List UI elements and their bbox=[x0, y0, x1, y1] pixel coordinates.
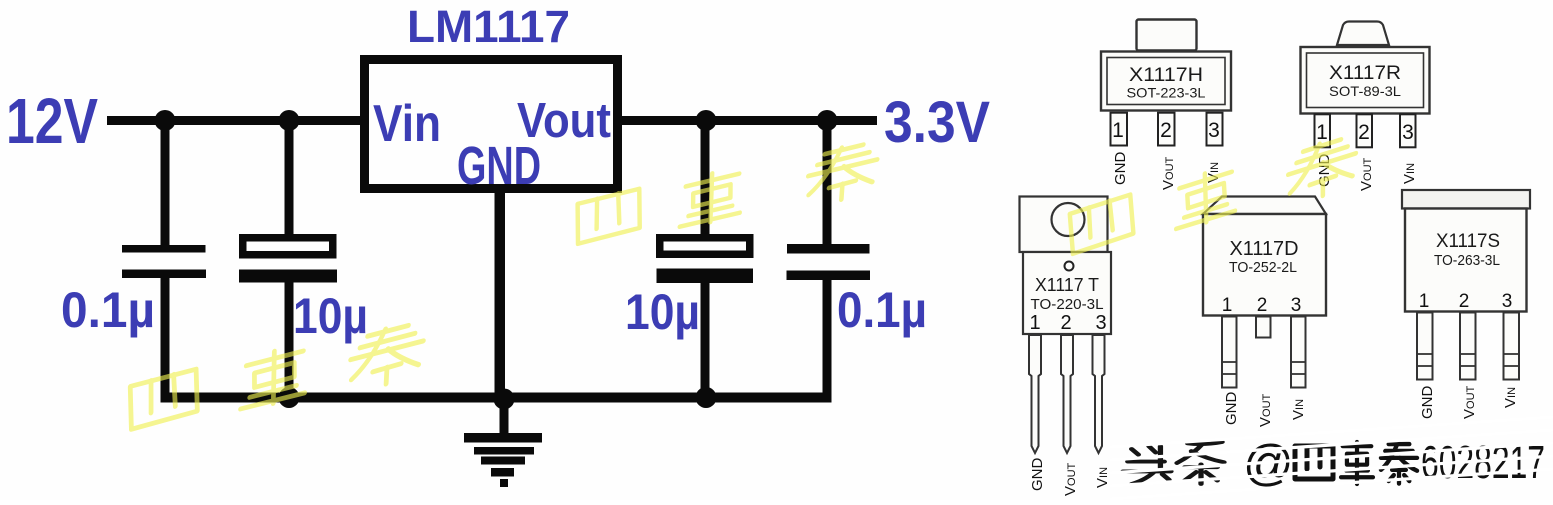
capacitor C2 10u bottom plate bbox=[239, 270, 337, 283]
leg 1 of U6 bbox=[1417, 313, 1433, 380]
package U2 X1117H SOT-223 body bbox=[1101, 52, 1231, 111]
mounting hole U4 bbox=[1052, 203, 1085, 236]
stencil stripes bbox=[1110, 417, 1553, 499]
svg-text:3: 3 bbox=[1095, 312, 1106, 334]
svg-text:SOT-89-3L: SOT-89-3L bbox=[1329, 83, 1401, 99]
svg-text:3.3V: 3.3V bbox=[884, 90, 990, 155]
wire ground stem bbox=[500, 400, 509, 435]
package U5 X1117D TO-252 body bbox=[1203, 214, 1326, 316]
svg-text:GND: GND bbox=[457, 136, 541, 196]
package U6 X1117S TO-263 body bbox=[1405, 209, 1527, 312]
wire C3 bottom lead bbox=[701, 280, 710, 402]
package U4 X1117T TO-220 tab bbox=[1020, 197, 1108, 253]
svg-text:TO-252-2L: TO-252-2L bbox=[1229, 259, 1297, 276]
leg 3 of U6 bbox=[1504, 313, 1520, 380]
svg-text:X1117D: X1117D bbox=[1230, 238, 1299, 260]
ground symbol bbox=[464, 433, 542, 487]
leg 3 of U5 bbox=[1291, 317, 1306, 388]
svg-text:2: 2 bbox=[1358, 121, 1370, 144]
svg-text:10µ: 10µ bbox=[625, 284, 700, 340]
svg-text:10µ: 10µ bbox=[293, 288, 368, 344]
svg-text:2: 2 bbox=[1459, 291, 1470, 312]
svg-text:X1117S: X1117S bbox=[1436, 231, 1500, 252]
svg-text:1: 1 bbox=[1029, 312, 1040, 334]
pin 1 of U2 bbox=[1111, 113, 1128, 146]
leg 2 of U6 bbox=[1460, 313, 1476, 380]
wire C4 bottom lead bbox=[823, 273, 832, 400]
pin 2 of U3 bbox=[1357, 114, 1373, 147]
svg-text:TO-220-3L: TO-220-3L bbox=[1031, 297, 1104, 313]
svg-text:1: 1 bbox=[1419, 291, 1430, 312]
svg-text:2: 2 bbox=[1060, 312, 1071, 334]
svg-text:12V: 12V bbox=[6, 85, 98, 157]
index dot U4 bbox=[1065, 262, 1074, 271]
node junction J5 bbox=[279, 387, 300, 408]
wire input rail bbox=[107, 116, 365, 125]
svg-text:3: 3 bbox=[1208, 119, 1220, 142]
svg-text:2: 2 bbox=[1160, 119, 1172, 142]
pin 1 of U3 bbox=[1315, 114, 1331, 147]
wire C1 bottom lead bbox=[161, 274, 170, 400]
svg-text:0.1µ: 0.1µ bbox=[61, 282, 155, 338]
svg-text:3: 3 bbox=[1402, 121, 1414, 144]
leg 2 of U4 bbox=[1061, 335, 1073, 453]
capacitor C2 10u polarized top plate bbox=[243, 238, 333, 255]
svg-text:SOT-223-3L: SOT-223-3L bbox=[1127, 85, 1206, 101]
leg 3 of U4 bbox=[1093, 335, 1105, 453]
svg-text:1: 1 bbox=[1316, 121, 1328, 144]
node junction J1 bbox=[155, 110, 176, 131]
node junction J7 bbox=[696, 387, 717, 408]
wire C3 top lead bbox=[701, 120, 710, 235]
glyph zhong (heavy) black bbox=[1341, 442, 1373, 484]
svg-text:LM1117: LM1117 bbox=[407, 1, 570, 52]
svg-text:X1117 T: X1117 T bbox=[1035, 275, 1099, 295]
capacitor C3 10u bottom plate bbox=[657, 269, 754, 284]
capacitor C3 10u polarized top plate bbox=[660, 238, 750, 255]
svg-text:X1117R: X1117R bbox=[1329, 63, 1401, 84]
package U5 X1117D TO-252 cap bbox=[1203, 197, 1326, 215]
watermark bottom credit line bbox=[1110, 417, 1553, 499]
node junction J6 bbox=[494, 389, 515, 410]
glyph tiao (article) bbox=[1177, 442, 1224, 484]
svg-text:GND: GND bbox=[1223, 392, 1240, 426]
glyph zou (play) black bbox=[1381, 442, 1417, 484]
capacitor C4 0.1u plates bbox=[787, 244, 871, 280]
pin 3 of U3 bbox=[1400, 114, 1416, 147]
wire output rail bbox=[617, 116, 877, 125]
svg-text:Vin: Vin bbox=[373, 95, 441, 153]
leg 2 stub of U5 bbox=[1256, 317, 1271, 338]
glyph si (four) black bbox=[1295, 446, 1333, 479]
wire C2 top lead bbox=[285, 120, 294, 236]
svg-text:X1117H: X1117H bbox=[1129, 65, 1203, 86]
node junction J2 bbox=[279, 110, 300, 131]
wire C4 top lead bbox=[823, 120, 832, 246]
svg-text:1: 1 bbox=[1112, 119, 1124, 142]
watermark sichongzou middle bbox=[575, 141, 879, 246]
glyph tou (head) bbox=[1123, 446, 1171, 484]
svg-text:3: 3 bbox=[1502, 291, 1513, 312]
pin 2 of U2 bbox=[1158, 113, 1175, 146]
leg 1 of U5 bbox=[1222, 317, 1237, 388]
svg-text:2: 2 bbox=[1257, 295, 1268, 316]
watermark sichongzou right bbox=[1070, 135, 1356, 259]
wire C2 bottom lead bbox=[285, 280, 294, 402]
package U3 X1117R SOT-89 tab bbox=[1337, 22, 1389, 46]
svg-text:GND: GND bbox=[1112, 152, 1129, 186]
svg-text:0.1µ: 0.1µ bbox=[837, 282, 927, 338]
svg-text:GND: GND bbox=[1419, 386, 1436, 420]
watermark sichongzou bottom-left bbox=[128, 321, 425, 434]
package U2 X1117H SOT-223 tab bbox=[1137, 20, 1197, 51]
capacitor C1 0.1u plates bbox=[122, 245, 206, 278]
wire GND pin lead bbox=[495, 188, 506, 402]
svg-text:3: 3 bbox=[1291, 295, 1302, 316]
op-amp U1 LM1117 regulator box bbox=[365, 60, 618, 189]
wire C1 top lead bbox=[161, 120, 170, 245]
svg-text:GND: GND bbox=[1029, 458, 1046, 492]
node junction J4 bbox=[817, 110, 838, 131]
package U3 X1117R SOT-89 body bbox=[1301, 47, 1430, 114]
svg-text:TO-263-3L: TO-263-3L bbox=[1434, 252, 1500, 269]
wire bottom ground rail bbox=[161, 393, 832, 403]
pin 3 of U2 bbox=[1207, 113, 1223, 146]
svg-text:1: 1 bbox=[1222, 295, 1233, 316]
leg 1 of U4 bbox=[1029, 335, 1041, 453]
package U4 X1117T TO-220 body bbox=[1023, 252, 1111, 334]
package U6 X1117S TO-263 tab strip bbox=[1402, 190, 1530, 209]
node junction J3 bbox=[696, 110, 717, 131]
